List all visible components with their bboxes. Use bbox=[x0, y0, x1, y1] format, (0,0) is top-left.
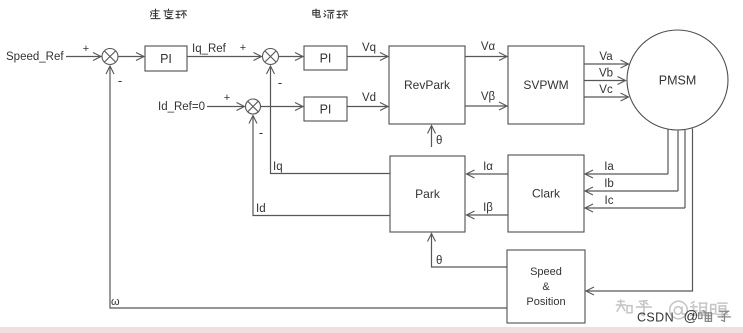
motor PMSM bbox=[627, 30, 728, 130]
block SVPWM bbox=[508, 46, 584, 124]
svg-text:Iα: Iα bbox=[483, 161, 493, 173]
svg-text:Clark: Clark bbox=[532, 187, 561, 201]
text wm雏 bbox=[691, 302, 707, 315]
wire PI3 to RevPark bbox=[347, 106, 388, 108]
wire Speed_Ref to J1 bbox=[66, 56, 101, 58]
wire RevPark Vbeta to SVPWM bbox=[465, 105, 507, 107]
svg-text:-: - bbox=[118, 73, 122, 88]
wire J3 to PI3 bbox=[261, 106, 304, 108]
wire Iq feedback Park to J2 bbox=[271, 66, 391, 174]
text wm乎 bbox=[636, 301, 651, 316]
svg-text:Ib: Ib bbox=[604, 178, 614, 190]
wire PMSM phase a down bbox=[667, 130, 669, 175]
block PI3 id current PI bbox=[304, 97, 347, 121]
svg-text:Position: Position bbox=[526, 296, 565, 308]
svg-text:+: + bbox=[224, 92, 230, 104]
text csdn子 bbox=[718, 311, 730, 321]
wire SVPWM Va to PMSM bbox=[584, 63, 629, 65]
text csdn噰 bbox=[699, 311, 712, 322]
text 环2 bbox=[337, 11, 348, 18]
svg-text:Va: Va bbox=[599, 51, 613, 63]
summing junction J1 bbox=[102, 49, 118, 65]
wire PI2 to RevPark bbox=[347, 56, 388, 58]
wire Id_Ref to J3 bbox=[207, 106, 245, 108]
svg-text:Ia: Ia bbox=[604, 161, 614, 173]
svg-text:SVPWM: SVPWM bbox=[523, 78, 568, 92]
svg-text:θ: θ bbox=[436, 255, 442, 267]
svg-text:Speed: Speed bbox=[530, 266, 562, 278]
block PI2 iq current PI bbox=[304, 46, 347, 70]
svg-text:Park: Park bbox=[415, 187, 441, 201]
svg-text:&: & bbox=[542, 281, 550, 293]
svg-text:Iq_Ref: Iq_Ref bbox=[192, 43, 227, 55]
svg-text:Vq: Vq bbox=[362, 42, 376, 54]
wire SVPWM Vb to PMSM bbox=[584, 80, 626, 82]
svg-text:-: - bbox=[278, 75, 282, 90]
wire Clark Ialpha to Park bbox=[467, 173, 509, 175]
text 度 bbox=[164, 9, 173, 19]
wire theta to Park bbox=[432, 234, 508, 268]
wire RevPark Valpha to SVPWM bbox=[465, 56, 507, 58]
block Speed and Position sensor bbox=[507, 250, 585, 323]
svg-text:Vd: Vd bbox=[362, 92, 376, 104]
svg-text:Vα: Vα bbox=[481, 41, 496, 53]
text wm晖 bbox=[711, 303, 728, 317]
block RevPark inverse Park transform bbox=[389, 46, 465, 124]
text 环 bbox=[176, 11, 187, 18]
wire Clark Ibeta to Park bbox=[467, 214, 509, 216]
svg-text:PI: PI bbox=[160, 52, 172, 66]
svg-text:ω: ω bbox=[111, 296, 120, 308]
wire theta to RevPark bbox=[431, 126, 433, 148]
wire PI1 to J2 bbox=[187, 56, 262, 58]
svg-text:Id_Ref=0: Id_Ref=0 bbox=[158, 101, 205, 113]
svg-text:+: + bbox=[240, 42, 246, 54]
wire J2 to PI2 bbox=[279, 56, 304, 58]
wire PMSM phase c down bbox=[684, 130, 686, 208]
svg-text:Vb: Vb bbox=[599, 68, 613, 80]
svg-text:Iβ: Iβ bbox=[483, 202, 493, 214]
svg-text:Vc: Vc bbox=[599, 84, 613, 96]
svg-text:Id: Id bbox=[256, 203, 266, 215]
wire SVPWM Vc to PMSM bbox=[584, 96, 629, 98]
svg-text:Vβ: Vβ bbox=[481, 91, 496, 103]
text 电 bbox=[313, 9, 320, 17]
svg-text:+: + bbox=[83, 43, 89, 55]
svg-text:CSDN: CSDN bbox=[637, 311, 674, 325]
text 速 bbox=[150, 9, 160, 19]
wire PMSM position to Speed block bbox=[586, 129, 693, 292]
svg-text:RevPark: RevPark bbox=[404, 78, 451, 92]
text 流 bbox=[324, 10, 334, 18]
bottom pink strip bbox=[0, 327, 743, 333]
wire PMSM phase b down bbox=[677, 131, 679, 192]
wire omega feedback to J1 bbox=[110, 66, 507, 308]
wire Id feedback Park to J3 bbox=[253, 116, 390, 216]
svg-text:PI: PI bbox=[320, 102, 332, 116]
summing junction J3 bbox=[246, 99, 261, 114]
svg-text:PI: PI bbox=[320, 51, 332, 65]
svg-text:Ic: Ic bbox=[605, 195, 614, 207]
wire Ic to Clark bbox=[585, 207, 685, 209]
svg-text:Speed_Ref: Speed_Ref bbox=[6, 51, 64, 63]
svg-text:-: - bbox=[259, 125, 263, 140]
wire J1 to PI1 bbox=[118, 56, 144, 58]
wire Ib to Clark bbox=[585, 190, 678, 192]
svg-text:Iq: Iq bbox=[273, 161, 283, 173]
summing junction J2 bbox=[263, 49, 279, 65]
text wm知 bbox=[616, 300, 632, 313]
svg-text:PMSM: PMSM bbox=[659, 74, 697, 88]
block PI1 speed PI bbox=[145, 46, 187, 71]
wire Ia to Clark bbox=[585, 173, 668, 175]
block Park transform bbox=[390, 156, 465, 232]
svg-text:θ: θ bbox=[436, 135, 442, 147]
block Clark transform bbox=[508, 155, 584, 232]
svg-text:@: @ bbox=[684, 309, 699, 325]
